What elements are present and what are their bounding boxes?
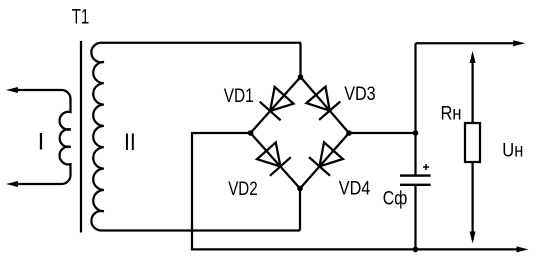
capacitor Сф top plate bbox=[400, 174, 431, 176]
wire: secondary bottom to bridge bottom node bbox=[299, 189, 301, 231]
wire: positive vertical riser bbox=[414, 43, 416, 174]
arrowhead load line down bbox=[470, 232, 476, 244]
wire: bridge right node to capacitor node bbox=[349, 132, 416, 134]
arrowhead load line up bbox=[470, 51, 476, 63]
plus sign of capacitor bbox=[423, 164, 429, 170]
svg-text:I: I bbox=[38, 129, 45, 156]
arrowhead top output rail bbox=[513, 40, 525, 46]
bridge diagonal left-top bbox=[251, 77, 301, 133]
arrowhead primary top lead bbox=[6, 87, 18, 93]
wire: capacitor bottom lead bbox=[414, 185, 416, 250]
diode VD4 bbox=[309, 142, 343, 175]
resistor Rн body bbox=[465, 123, 480, 162]
wire: top wire drop to bridge top node bbox=[299, 43, 301, 77]
svg-text:Сф: Сф bbox=[383, 188, 408, 210]
svg-text:II: II bbox=[124, 129, 136, 156]
node dot bridge top bbox=[298, 74, 304, 80]
svg-text:VD4: VD4 bbox=[339, 178, 371, 200]
transformer T1 core bbox=[80, 41, 82, 233]
capacitor Сф bottom plate bbox=[400, 184, 431, 186]
node dot capacitor top junction bbox=[413, 130, 419, 136]
diode VD2 bbox=[257, 142, 291, 175]
svg-text:Uн: Uн bbox=[502, 139, 523, 161]
node dot bridge bottom bbox=[297, 186, 303, 192]
winding I (primary) with lead wires bbox=[16, 90, 71, 184]
svg-text:Rн: Rн bbox=[441, 102, 462, 124]
bridge diagonal top-right bbox=[301, 77, 350, 133]
bridge diagonal bottom-right bbox=[300, 133, 349, 189]
svg-text:VD1: VD1 bbox=[224, 85, 254, 107]
bridge diagonal left-bottom bbox=[251, 133, 301, 189]
diode VD1 bbox=[260, 87, 294, 120]
winding II (secondary) with top wire to bridge bbox=[91, 43, 301, 231]
node dot bridge left bbox=[248, 130, 254, 136]
load line with resistor Rн bbox=[471, 55, 473, 240]
svg-text:VD3: VD3 bbox=[344, 83, 376, 105]
node dot capacitor bottom junction bbox=[413, 247, 419, 253]
wire: top output rail bbox=[416, 42, 515, 44]
node dot bridge right bbox=[346, 130, 352, 136]
svg-text:T1: T1 bbox=[72, 5, 90, 28]
diode VD3 bbox=[306, 87, 340, 120]
wire: bridge left node to bottom rail bbox=[192, 133, 517, 249]
svg-text:VD2: VD2 bbox=[228, 178, 258, 200]
arrowhead bottom output rail bbox=[517, 246, 529, 252]
arrowhead primary bottom lead bbox=[6, 181, 18, 187]
